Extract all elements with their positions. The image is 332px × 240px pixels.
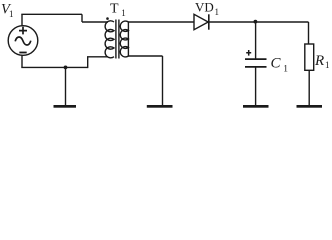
transformer T1 primary winding xyxy=(105,21,114,58)
resistor R1 body xyxy=(305,44,314,70)
junction dot top rail at C1 xyxy=(254,20,258,24)
plus sign inside V1 xyxy=(19,27,27,35)
ground bar 3 xyxy=(243,105,269,108)
svg-text:1: 1 xyxy=(325,60,330,70)
svg-text:VD: VD xyxy=(195,0,214,15)
ground bar 1 xyxy=(54,105,77,108)
wire V1 bottom stem xyxy=(21,55,23,67)
wire R1 bottom to ground xyxy=(308,70,310,105)
wire down to R1 xyxy=(308,22,310,44)
svg-text:1: 1 xyxy=(215,7,220,17)
transformer core line 1 xyxy=(115,20,117,59)
ground stem 1 xyxy=(65,67,67,105)
ground bar 2 xyxy=(147,105,173,108)
transformer T1 secondary winding xyxy=(120,21,128,57)
diode VD1 cathode bar xyxy=(208,14,210,29)
svg-text:R: R xyxy=(314,53,324,69)
wire bottom-left rail xyxy=(21,66,87,68)
wire secondary top to diode xyxy=(128,21,193,23)
transformer core line 2 xyxy=(118,20,120,59)
capacitor C1 bottom plate xyxy=(245,66,267,68)
diode VD1 triangle xyxy=(194,14,208,29)
wire jog up to primary bottom xyxy=(87,57,89,68)
wire top rail upper segment xyxy=(21,13,82,15)
minus sign inside V1 xyxy=(19,52,26,54)
svg-text:C: C xyxy=(271,55,282,71)
transformer phase dot xyxy=(106,17,109,20)
wire secondary bottom xyxy=(128,55,162,57)
transformer secondary spine wire xyxy=(127,22,129,56)
svg-text:T: T xyxy=(110,2,119,17)
capacitor C1 plus sign xyxy=(246,50,251,56)
svg-text:1: 1 xyxy=(121,8,126,18)
wire junction down to C1 xyxy=(255,22,257,59)
capacitor C1 top plate xyxy=(245,58,267,60)
svg-text:1: 1 xyxy=(283,65,288,75)
wire diode to right corner xyxy=(209,21,309,23)
wire to transformer primary bottom xyxy=(87,56,108,58)
source V1 xyxy=(8,26,38,56)
junction dot bottom-left rail xyxy=(64,66,68,70)
wire step down at x=82 xyxy=(81,14,83,22)
sine symbol inside V1 xyxy=(15,37,31,45)
svg-text:1: 1 xyxy=(9,9,14,19)
wire C1 bottom to ground xyxy=(255,67,257,106)
wire top rail to transformer primary xyxy=(82,21,108,23)
wire down to ground 2 xyxy=(162,56,164,106)
ground bar 4 xyxy=(297,105,323,108)
wire V1 top stem xyxy=(21,14,23,25)
